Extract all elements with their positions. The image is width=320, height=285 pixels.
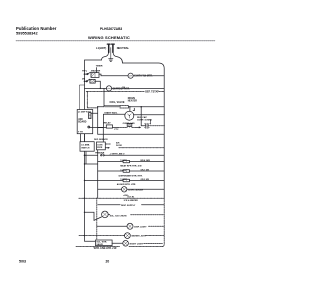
svg-text:AUGER MTR. HTR.: AUGER MTR. HTR. (117, 183, 137, 186)
evap fan motor circle (128, 73, 133, 78)
defrost thermostat dash-dot boundary (86, 91, 144, 93)
wire: outer right bus (neutral side) with rounded corners (123, 63, 165, 198)
svg-text:LO AMB.: LO AMB. (81, 144, 90, 147)
footer date (19, 260, 109, 264)
svg-text:DISPENSER WTR. HTR.: DISPENSER WTR. HTR. (119, 176, 143, 178)
svg-text:BOARD: BOARD (78, 121, 87, 124)
run capacitor symbol (146, 123, 148, 128)
svg-text:ICE & WATER: ICE & WATER (124, 199, 138, 202)
wire: row to bus dash (131, 214, 165, 216)
svg-text:HEATER: HEATER (128, 99, 137, 102)
svg-text:WIRING SCHEMATIC: WIRING SCHEMATIC (88, 35, 130, 40)
svg-text:FRZR: FRZR (97, 147, 103, 149)
row: condenser fan (101, 155, 102, 156)
row: fresh food light (98, 188, 122, 190)
wire: drop to valve coil row (103, 88, 105, 106)
wire: left prong lead into left bus (102, 52, 109, 60)
wire: compressor feed line (103, 113, 124, 115)
lamp fresh food light (122, 187, 127, 192)
node: bus junction at timer (84, 73, 86, 75)
dispenser dashed box bottom (76, 246, 162, 248)
svg-text:DEF. TSTAT: DEF. TSTAT (145, 90, 159, 93)
svg-text:NIGHT LIGHT: NIGHT LIGHT (130, 243, 144, 245)
timer cam box 2 (90, 79, 95, 83)
svg-text:L1(HOT): L1(HOT) (96, 46, 106, 50)
wire: timer output to evap fan row (99, 74, 128, 76)
row: night light lamp (112, 242, 123, 244)
adaptive defrost control board box (77, 110, 93, 134)
compressor motor circle (125, 111, 134, 120)
thermostat box (cold control) (80, 142, 94, 152)
wire: relay riser (102, 114, 104, 127)
switch contact 1M (85, 72, 91, 74)
ADC internal coil element (89, 113, 91, 119)
svg-text:COIL, VALVE: COIL, VALVE (110, 101, 125, 104)
svg-text:MASTER: MASTER (91, 70, 101, 73)
wire: compressor top stub to coil row (129, 107, 131, 111)
wire: bus to rail link (85, 154, 98, 156)
solenoid valve box (96, 240, 113, 246)
wire: row separator under compressor (98, 133, 165, 135)
row: auger motor lamp (97, 225, 127, 227)
svg-text:OR-2 6W: OR-2 6W (141, 179, 149, 181)
wire: defrost water row to bus (130, 170, 165, 172)
svg-text:SWITCH: SWITCH (81, 148, 90, 150)
svg-text:RELAY: RELAY (104, 121, 112, 124)
svg-text:TM•}: TM•} (82, 70, 87, 72)
node: bus junction lights feed (84, 155, 86, 157)
defrost heater circle (106, 86, 111, 91)
svg-text:20: 20 (106, 260, 110, 264)
overload element (113, 126, 119, 128)
dash-dot lead from control top (105, 143, 110, 145)
wire: defrost row from bus (85, 87, 107, 89)
svg-text:MEAT KPR HTR. 4 W.: MEAT KPR HTR. 4 W. (120, 164, 142, 167)
power plug left prong (L1) (108, 44, 110, 52)
dash-dot boundary drop along ADC (87, 92, 98, 108)
wire: ladder left rail (97, 150, 99, 198)
ground symbol (109, 59, 113, 62)
wire: thermostat to right bus (159, 91, 165, 93)
wire: coil row to right bus (129, 106, 165, 108)
wire: bus to coil row (98, 106, 104, 108)
wire: night light to bus dash (144, 243, 163, 245)
svg-text:OR-7 5W: OR-7 5W (141, 169, 149, 171)
wire: bus elbow to valve box (85, 236, 96, 242)
wire: riser joining coil row to cap row (141, 107, 146, 126)
header rule (16, 40, 215, 42)
svg-text:ADC: ADC (78, 118, 83, 121)
wire: stub from timer label to box (96, 68, 98, 73)
svg-text:LIGHT, AUGER: LIGHT, AUGER (128, 188, 143, 191)
wire: stub hook right of circle (133, 108, 134, 110)
wire: ADC coil terminal to defrost row riser (91, 107, 98, 134)
wire: defrost heater to thermostat (112, 87, 165, 89)
drain heater element (120, 106, 129, 108)
wire: row to bus dash-dot (146, 235, 164, 237)
wire: evap fan to right bus (133, 75, 164, 77)
row: water light lamp (79, 235, 125, 237)
svg-text:T TH: T TH (78, 132, 83, 134)
svg-text:DISP. LIGHT: DISP. LIGHT (134, 226, 147, 228)
svg-text:EVAP. FAN MTR.: EVAP. FAN MTR. (134, 75, 153, 78)
wire: right prong lead into right bus (113, 52, 122, 63)
svg-text:5995538342: 5995538342 (16, 31, 38, 36)
freezer control box (97, 142, 106, 150)
wire: mullion row to bus (130, 180, 165, 182)
wire with arrow to run capacitor (137, 126, 141, 128)
node: junction coil row (97, 106, 98, 107)
wire: outer left bus (L1 hot side) (85, 60, 102, 236)
svg-text:WATER LIGHT: WATER LIGHT (131, 235, 146, 238)
wire: ADC D terminal to relay riser (90, 128, 104, 142)
svg-text:SOL. ICE CHUTE: SOL. ICE CHUTE (110, 215, 128, 217)
wire: run cap to right bus (dashed) (148, 125, 165, 127)
switch contact 2M (85, 79, 90, 81)
wire: bus tap down-left into ADC top (79, 85, 84, 110)
svg-text:VALVE: VALVE (96, 243, 103, 246)
wire: ADC bottom lead down (79, 134, 81, 142)
svg-text:PLHS267ZAB3: PLHS267ZAB3 (100, 27, 122, 31)
svg-text:PTC: PTC (114, 129, 119, 131)
svg-text:5/03: 5/03 (19, 260, 26, 264)
wire: meat keeper row to bus (130, 161, 165, 163)
svg-text:TIMER: TIMER (96, 66, 103, 68)
timer cam box 1 (91, 73, 99, 78)
wire: dashed link cap to upper line (149, 120, 151, 125)
heater element bars (98, 160, 130, 162)
node: bus junction 2M (84, 81, 86, 83)
wire: condenser fan row (104, 154, 164, 156)
svg-text:DEF. SENSOR: DEF. SENSOR (94, 139, 108, 141)
svg-text:NEUTRAL: NEUTRAL (117, 46, 130, 50)
ADC terminal D (88, 126, 90, 128)
wire: light row to bus (127, 188, 164, 190)
wire: timer 2M output down to defrost row (95, 81, 100, 88)
dispenser dashed box top (79, 197, 164, 199)
wire: dispenser feed row with inline label (98, 204, 165, 206)
svg-text:BR-4 24W: BR-4 24W (141, 159, 150, 162)
power plug right prong (neutral) (112, 44, 114, 52)
wire: row to bus dashed (149, 225, 165, 227)
node: junction at x141 (140, 106, 142, 108)
solenoid coil symbol (104, 106, 120, 107)
svg-text:CUT-IN: CUT-IN (127, 196, 134, 198)
ground pin wire (110, 48, 112, 59)
header publication number text (16, 26, 130, 40)
relay box (98, 126, 107, 128)
svg-text:WTR. LINE HTR. 2 W.: WTR. LINE HTR. 2 W. (94, 248, 118, 250)
row: solenoid ice chute lamp (84, 212, 85, 213)
svg-text:DOOR: DOOR (116, 145, 122, 147)
wire: box1 lead down to bus link (85, 152, 98, 164)
svg-text:2M: 2M (82, 78, 85, 80)
wire: arrow from freezer control (105, 147, 109, 149)
wire: cap upper line to right bus (134, 114, 165, 116)
wire: dashed row to right bus at control row (119, 147, 164, 149)
svg-text:DISP. SUPPLY: DISP. SUPPLY (121, 205, 136, 207)
